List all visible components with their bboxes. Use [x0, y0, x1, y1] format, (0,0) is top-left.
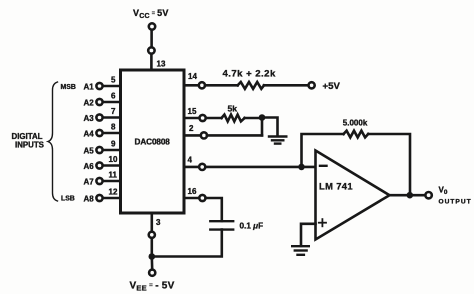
node junction dot 5k/pin2 [259, 114, 266, 121]
svg-text:A1: A1 [84, 83, 95, 92]
svg-text:13: 13 [157, 60, 166, 69]
inverting node junction dot [298, 164, 305, 171]
input A7 [84, 171, 121, 187]
wire Vcc down [150, 30, 153, 47]
svg-text:4: 4 [188, 156, 193, 165]
svg-text:7: 7 [111, 107, 116, 116]
input A6 [84, 155, 121, 171]
plus input symbol [319, 219, 326, 226]
Vo OUTPUT label [439, 186, 472, 206]
+5V terminal [309, 82, 315, 88]
svg-text:4.7k + 2.2k: 4.7k + 2.2k [223, 69, 276, 80]
svg-text:5: 5 [111, 76, 116, 85]
svg-text:A7: A7 [84, 178, 95, 187]
inline connector circle on Vcc wire [148, 47, 154, 53]
svg-text:8: 8 [111, 123, 116, 132]
svg-text:OUTPUT: OUTPUT [439, 198, 472, 205]
svg-text:5.000k: 5.000k [343, 118, 368, 127]
output junction dot [407, 192, 414, 199]
wire pin3 circle to Vee node [151, 238, 154, 257]
pin 3 wire [151, 213, 154, 232]
resistor 5.000k [344, 131, 369, 138]
DAC0808 IC body [121, 70, 185, 213]
brace for digital inputs [48, 82, 58, 201]
inline connector circle pin 3 [149, 232, 155, 238]
resistor 5k [222, 115, 245, 122]
wire 5k to node [245, 117, 262, 120]
svg-text:A2: A2 [84, 99, 95, 108]
pin 14 wire and terminal [184, 72, 238, 88]
svg-text:MSB: MSB [61, 84, 76, 91]
wire Vee node down [151, 257, 154, 270]
pin 2 wire and terminal [184, 124, 262, 138]
feedback wire right and down to output [368, 134, 410, 195]
svg-text:14: 14 [188, 72, 197, 81]
ground (op-amp + input) [292, 246, 309, 255]
pin 4 wire and terminal [184, 156, 316, 170]
pin 15 wire and terminal [184, 107, 222, 121]
svg-text:11: 11 [109, 171, 118, 180]
svg-text:15: 15 [188, 107, 197, 116]
svg-text:2: 2 [189, 124, 194, 133]
svg-text:A4: A4 [84, 130, 95, 139]
ground (5k node) [269, 137, 286, 144]
svg-text:0.1 μF: 0.1 μF [240, 222, 264, 231]
svg-text:5k: 5k [228, 103, 238, 113]
feedback loop wire [302, 134, 344, 167]
svg-text:16: 16 [188, 187, 197, 196]
wire node to ground corner [262, 118, 278, 137]
input A4 [84, 123, 121, 139]
svg-text:DAC0808: DAC0808 [135, 138, 171, 147]
wire pin2 up to node [261, 118, 264, 136]
wire to pin 13 [150, 54, 153, 70]
svg-text:A8: A8 [84, 195, 95, 204]
svg-text:10: 10 [109, 155, 118, 164]
svg-text:+5V: +5V [323, 81, 341, 92]
svg-text:6: 6 [111, 92, 116, 101]
op-amp LM741 [316, 151, 390, 240]
svg-text:LM 741: LM 741 [319, 181, 353, 192]
input A8 [84, 188, 121, 204]
capacitor C 0.1uF [210, 221, 233, 229]
input A1 [84, 76, 121, 92]
svg-text:A5: A5 [84, 147, 95, 156]
wire capacitor bottom to Vee rail [152, 230, 222, 257]
output terminal circle [425, 192, 431, 198]
svg-text:A3: A3 [84, 114, 95, 123]
output wire [390, 194, 426, 197]
input A2 [84, 92, 121, 108]
Vee junction dot [149, 253, 156, 260]
pin 16 wire and terminal [184, 187, 222, 221]
minus input symbol [320, 165, 327, 167]
svg-text:12: 12 [109, 188, 118, 197]
Vee terminal circle [149, 270, 155, 276]
svg-text:LSB: LSB [61, 196, 75, 203]
input A3 [84, 107, 121, 123]
resistor 4.7k + 2.2k [238, 82, 264, 89]
Vcc terminal circle [149, 23, 155, 29]
wire to +5V [264, 84, 308, 87]
non-inverting input wire to ground [301, 224, 316, 246]
input A5 [84, 140, 121, 156]
svg-text:A6: A6 [84, 162, 95, 171]
Vcc label [133, 8, 169, 20]
DIGITAL INPUTS label [12, 132, 44, 150]
svg-text:INPUTS: INPUTS [15, 141, 44, 150]
svg-text:9: 9 [111, 140, 116, 149]
svg-text:3: 3 [156, 218, 161, 227]
